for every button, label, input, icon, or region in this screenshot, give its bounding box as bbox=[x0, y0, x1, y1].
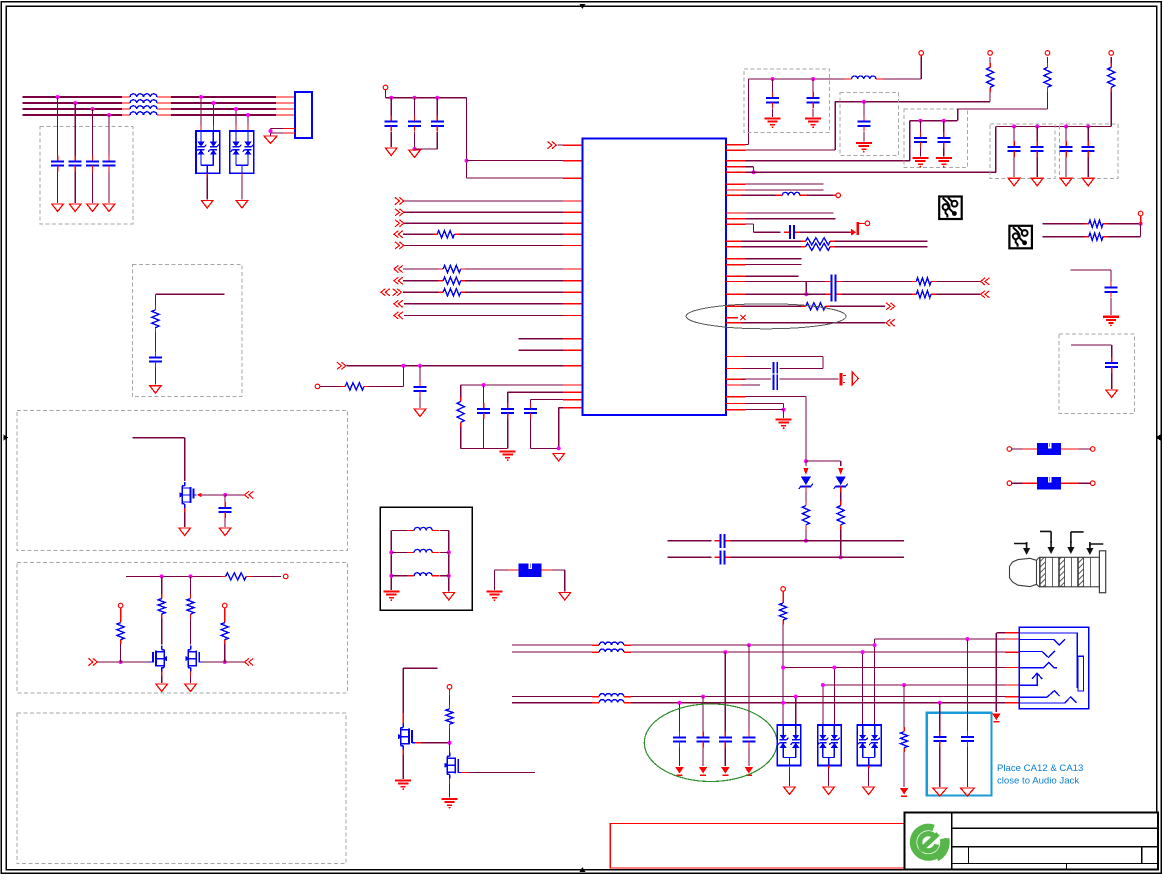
svg-text:close to Audio Jack: close to Audio Jack bbox=[997, 776, 1079, 787]
svg-text:Place CA12 & CA13: Place CA12 & CA13 bbox=[997, 763, 1083, 774]
